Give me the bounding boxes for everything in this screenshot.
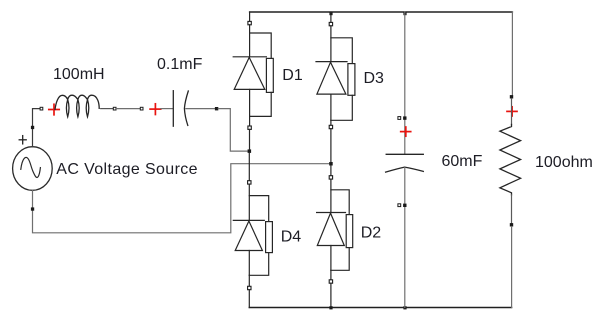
junction: top rail at C2 branch — [403, 12, 406, 15]
junction: bottom rail at D2 branch — [329, 306, 332, 309]
wire: R1 port to zigzag — [511, 99, 513, 125]
port square D3 top — [329, 22, 332, 25]
junction: bottom rail at C2 branch — [403, 306, 406, 309]
port square at L1 output — [113, 107, 116, 110]
ac voltage source V1 — [13, 147, 53, 191]
wire: L1 to C1 — [117, 108, 140, 110]
svg-text:0.1mF: 0.1mF — [157, 56, 203, 73]
port square D2 bottom — [329, 280, 332, 283]
wire: D3 bottom to node B — [330, 129, 332, 162]
wire: V1 bottom return to node B — [33, 164, 330, 233]
wire: C1 to bridge node A — [218, 109, 247, 152]
capacitor C1 (0.1mF) plates — [173, 91, 188, 127]
wire: D2 bottom to bottom rail — [330, 283, 332, 307]
wire: D1 bottom to node A — [249, 129, 251, 149]
port squares at C2 top tap — [398, 116, 407, 119]
plus polarity mark of V1 — [19, 136, 26, 144]
wire: top rail (positive DC bus) — [250, 11, 513, 13]
svg-text:D2: D2 — [361, 224, 382, 241]
current polarity plus (red) at C1 — [150, 104, 161, 115]
port square at C1 output — [215, 107, 218, 110]
svg-text:D3: D3 — [364, 70, 385, 87]
port square at C1 input — [140, 107, 143, 110]
junction node A (D1 cathode / D4 anode) — [248, 149, 252, 153]
diode D3 — [316, 26, 355, 126]
port square D1 bottom — [248, 126, 251, 129]
port square D3 bottom — [329, 125, 332, 128]
port square D1 top — [248, 21, 251, 24]
resistor R1 zigzag — [500, 124, 521, 194]
inductor L1 coil — [55, 95, 99, 117]
wire: node B to D2 — [330, 166, 332, 176]
wire: zigzag to R1 bottom port — [511, 195, 513, 223]
junction on V1 bottom wire — [31, 207, 34, 210]
port square at L1 input — [40, 107, 43, 110]
current polarity plus (red) at R1 — [507, 107, 517, 116]
current polarity plus (red) at L1 — [49, 104, 59, 115]
wire: D4 bottom to bottom rail — [248, 290, 250, 308]
wire: top rail to D3 — [330, 12, 332, 23]
port square D2 top — [329, 176, 332, 179]
wire: top rail to C2 — [404, 12, 406, 154]
diode D1 — [233, 25, 273, 126]
svg-text:100mH: 100mH — [53, 66, 105, 83]
port squares at C2 bottom tap — [398, 204, 407, 207]
wire: R1 bottom to bottom rail — [511, 227, 513, 308]
svg-text:100ohm: 100ohm — [535, 154, 593, 171]
port square R1 top — [510, 95, 513, 98]
diode D4 — [233, 184, 272, 286]
junction node B (D3 cathode / D2 anode) — [329, 162, 333, 166]
svg-text:AC Voltage Source: AC Voltage Source — [56, 161, 198, 178]
wire: V1 top to node — [33, 109, 40, 147]
wire: top rail to D1 — [249, 12, 251, 22]
port square R1 bottom — [510, 223, 513, 226]
svg-text:60mF: 60mF — [442, 153, 483, 170]
junction: top rail at D3 branch — [329, 12, 332, 15]
port square D4 bottom — [248, 286, 251, 289]
wire: plus to C1 plate — [161, 108, 173, 110]
wire: C2 bottom to bottom rail — [404, 168, 406, 308]
wire: C1 output to port — [186, 108, 215, 110]
svg-text:D4: D4 — [281, 229, 302, 246]
wire: bottom rail (negative DC bus) — [249, 307, 511, 309]
current polarity plus (red) at C2 — [401, 127, 411, 136]
wire: L1 to its output port — [101, 108, 113, 110]
diode D2 — [317, 179, 353, 280]
wire: node A to D4 — [248, 153, 250, 181]
svg-text:D1: D1 — [282, 67, 303, 84]
port square D4 top — [248, 181, 251, 184]
wire: top rail to R1 — [511, 12, 513, 95]
capacitor C2 (60mF) plates — [386, 154, 424, 172]
junction on V1 top wire — [31, 126, 34, 129]
